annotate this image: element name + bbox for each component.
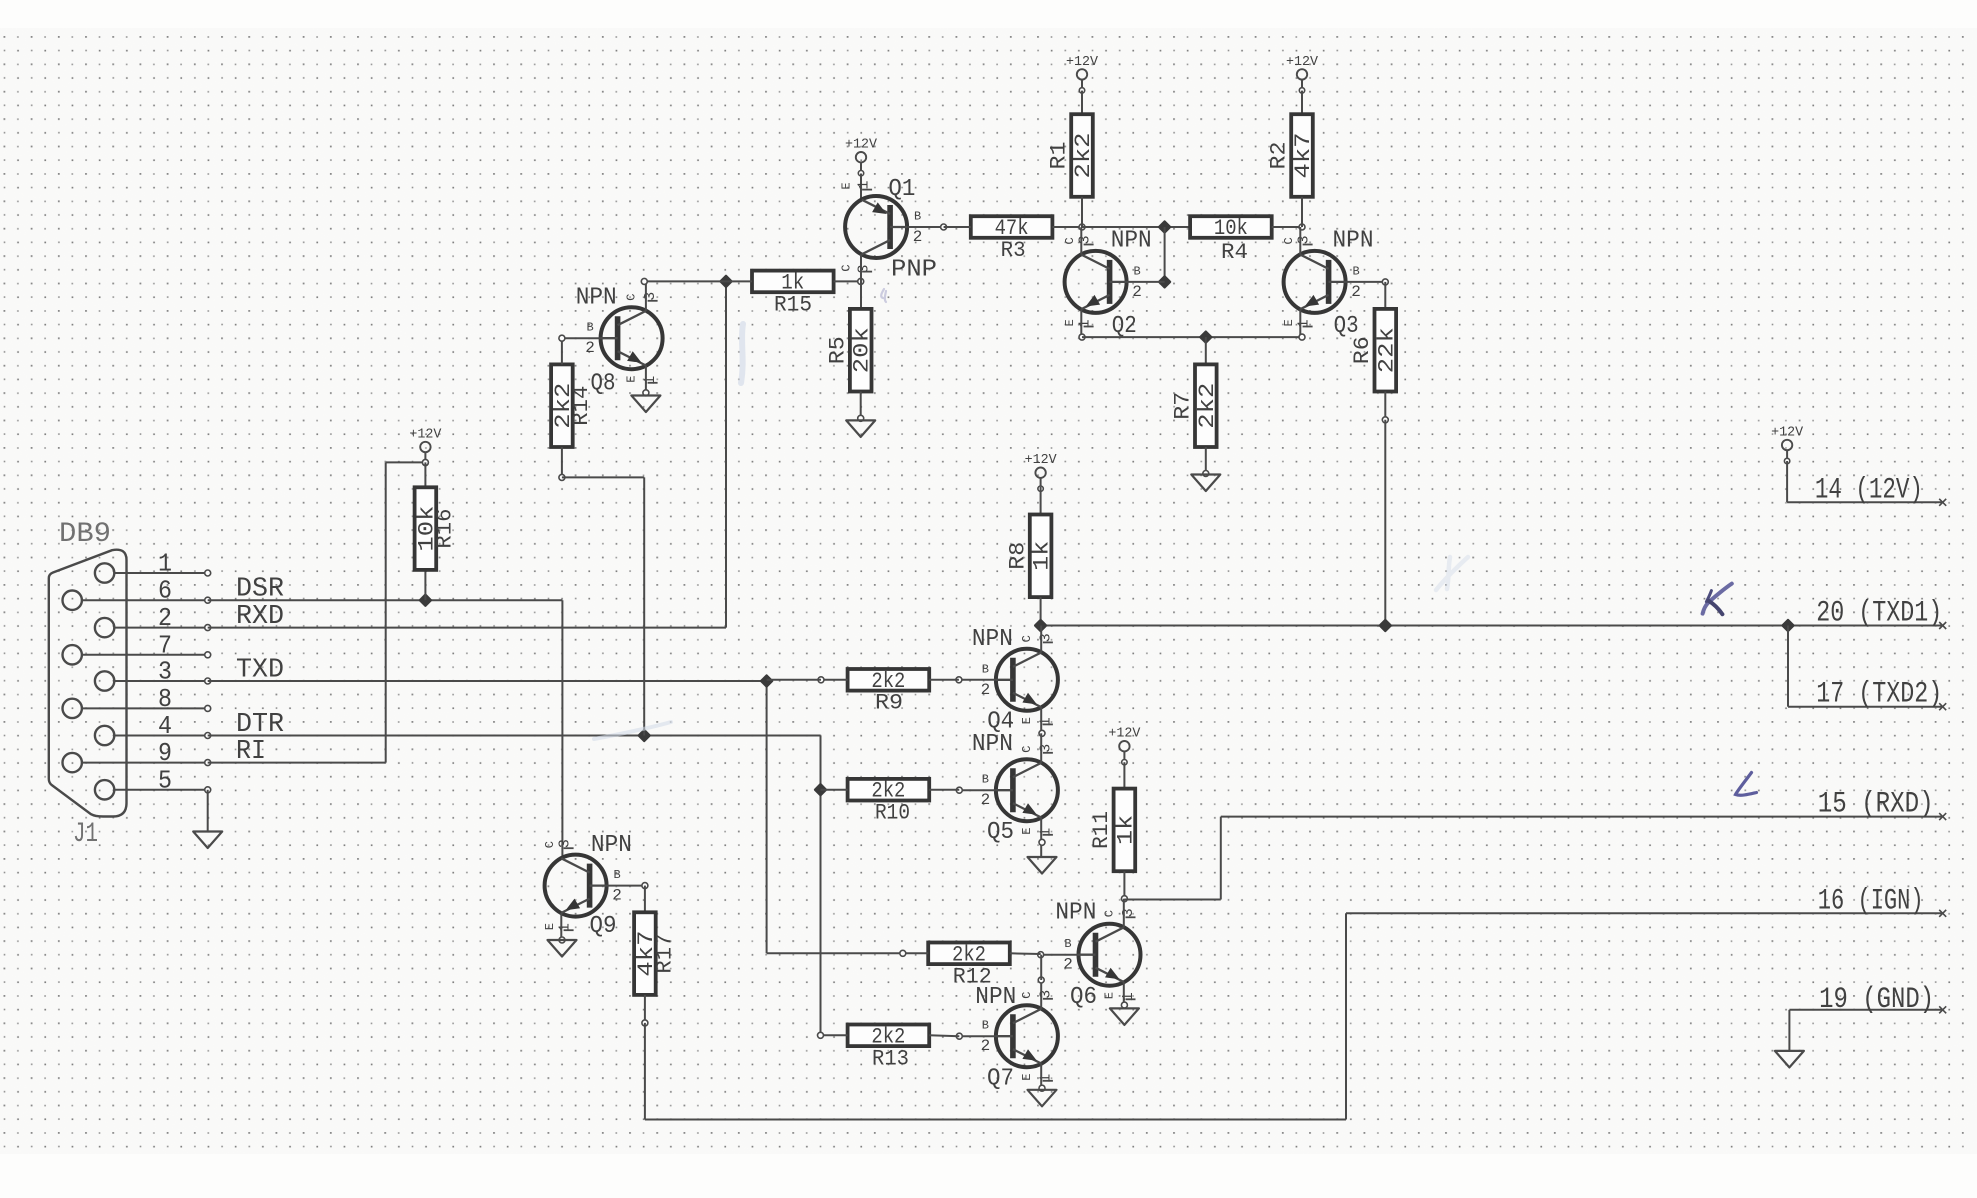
pin number 2 label [158, 603, 172, 633]
power +12V at R8 [1025, 453, 1058, 491]
label 20 (TXD1) [1816, 597, 1942, 631]
wire Q9 collector [560, 857, 562, 859]
svg-text:1k: 1k [1030, 541, 1055, 571]
connector J1 pin 2 circle [95, 618, 114, 637]
label Q2 NPN [1111, 228, 1152, 255]
resistor R3 [971, 216, 1053, 241]
label R15 name [774, 293, 812, 318]
label Q5 NPN [972, 731, 1013, 758]
svg-text:R10: R10 [875, 801, 910, 826]
svg-text:15 (RXD): 15 (RXD) [1818, 788, 1934, 822]
wire J1 pin 8 stub [82, 705, 211, 711]
pin mark RXD [1939, 813, 1946, 820]
junction node A / Q2 base [1158, 220, 1172, 234]
ground at Q9 [548, 940, 577, 957]
pin number 5 label [158, 765, 172, 795]
junction emitter bus / R7 [1199, 330, 1213, 344]
svg-text:PNP: PNP [891, 257, 937, 284]
wire Q9 emitter [559, 913, 565, 943]
wire emitter bus Q2-Q3 [1082, 336, 1302, 338]
wire R10 left [821, 789, 848, 791]
svg-text:3: 3 [642, 292, 659, 301]
label 15 (RXD) [1818, 788, 1934, 822]
svg-text:R2: R2 [1267, 142, 1292, 170]
svg-text:E: E [543, 923, 557, 930]
wire R1 bottom [1081, 197, 1083, 227]
ground at Q6 [1110, 1008, 1139, 1025]
wire J1 pin 6 stub [82, 597, 211, 603]
svg-text:2: 2 [585, 339, 595, 357]
resistor R6 [1374, 309, 1399, 392]
wire TXD net [208, 681, 903, 953]
label R11 name [1089, 811, 1114, 849]
pin mark TXD1 [1939, 622, 1946, 629]
svg-text:1: 1 [856, 180, 873, 189]
label R14 name [569, 386, 594, 426]
wire net TXD1 [1041, 625, 1943, 627]
svg-text:R8: R8 [1005, 542, 1030, 570]
svg-text:C: C [1282, 237, 1296, 244]
wire Q2 base wire [1127, 281, 1165, 283]
label 14 (12V) [1815, 473, 1923, 507]
pin mark 12V [1939, 499, 1946, 506]
label R1 name [1047, 142, 1072, 170]
resistor R5 [850, 309, 875, 392]
svg-text:NPN: NPN [576, 285, 617, 312]
svg-text:2: 2 [981, 1037, 991, 1055]
wire Q9 base wire [607, 883, 648, 889]
wire R9 left [767, 677, 848, 683]
svg-text:6: 6 [158, 576, 172, 606]
svg-text:Q1: Q1 [888, 176, 915, 203]
svg-text:3: 3 [158, 657, 172, 687]
svg-text:C: C [1020, 992, 1034, 999]
svg-text:Q6: Q6 [1070, 984, 1097, 1011]
transistor Q3 [1282, 235, 1361, 328]
svg-text:19 (GND): 19 (GND) [1819, 983, 1934, 1017]
wire R5 bottom [858, 392, 864, 422]
svg-text:J1: J1 [73, 819, 98, 850]
wire R2 top [1301, 91, 1303, 115]
svg-text:2: 2 [981, 681, 991, 699]
wire Q3 base wire [1346, 279, 1389, 285]
svg-text:3: 3 [1296, 235, 1313, 244]
wire Q2 emitter [1079, 309, 1085, 340]
wire Q3 emitter [1299, 309, 1305, 340]
svg-text:Q3: Q3 [1334, 313, 1359, 340]
wire R3 right [1052, 224, 1085, 230]
svg-text:2: 2 [1351, 283, 1361, 301]
label R8 name [1005, 542, 1030, 570]
svg-text:Q8: Q8 [591, 371, 616, 398]
svg-text:20k: 20k [850, 327, 875, 373]
svg-text:R5: R5 [825, 336, 850, 364]
wire J1 pin 2 stub [114, 625, 210, 631]
svg-text:2: 2 [913, 228, 923, 246]
connector J1 pin 6 circle [62, 591, 81, 610]
wire R3 left [944, 226, 971, 228]
faint blue streak right side [1436, 557, 1468, 590]
ground at Q7 [1028, 1090, 1057, 1107]
svg-text:Q9: Q9 [590, 913, 617, 940]
label 17 (TXD2) [1816, 678, 1942, 712]
wire Q1 emitter [860, 174, 862, 200]
wire Q3 collector [1299, 227, 1301, 255]
connector J1 pin 5 circle [95, 780, 114, 799]
label Q1 name [888, 176, 915, 203]
wire R12 right [1010, 952, 1041, 955]
label R12 name [953, 964, 992, 989]
svg-text:B: B [613, 868, 620, 882]
resistor R13 [848, 1024, 930, 1049]
wire R17 top [644, 886, 646, 913]
connector J1 (DB9) body [49, 519, 127, 850]
wire R14 bottom to DTR [559, 447, 644, 736]
node R16 top [422, 459, 428, 465]
svg-text:2: 2 [1063, 956, 1073, 974]
net label TXD [236, 656, 284, 686]
svg-text:3: 3 [1037, 990, 1054, 999]
wire R12 left [900, 950, 928, 956]
wire J1 pin 7 stub [82, 652, 211, 658]
wire J1 pin 1 stub [114, 570, 210, 576]
svg-text:C: C [1020, 746, 1034, 753]
wire Q4 collector [1040, 626, 1042, 653]
wire R13 left [818, 1032, 848, 1038]
wire R17 bottom to IGN [642, 913, 1943, 1119]
svg-text:9: 9 [158, 738, 172, 768]
svg-text:4: 4 [158, 711, 172, 741]
wire R16 pins [424, 462, 426, 600]
svg-text:4k7: 4k7 [1291, 133, 1316, 179]
ground at Q5 [1028, 857, 1057, 874]
resistor R8 [1030, 515, 1055, 598]
wire DTR net [208, 736, 821, 1036]
wire R2 bottom [1301, 197, 1303, 227]
svg-text:B: B [982, 1019, 989, 1033]
wire Q6 emitter [1121, 982, 1127, 1008]
svg-text:B: B [914, 210, 921, 224]
label R4 name [1221, 240, 1248, 265]
wire Q1 collector [860, 254, 862, 309]
wire Q5 base wire [956, 787, 996, 793]
svg-text:NPN: NPN [1055, 900, 1096, 927]
junction Q2 base [1158, 275, 1172, 289]
wire Q4 emitter [1039, 707, 1045, 736]
pin number 3 label [158, 657, 172, 687]
wire RI to +12V [208, 462, 426, 762]
svg-text:22k: 22k [1374, 327, 1399, 373]
ground at R5 [846, 420, 875, 437]
pin number 1 label [158, 549, 172, 579]
svg-text:B: B [586, 321, 593, 335]
wire Q7 collector [1038, 955, 1044, 1009]
junction TXD1/TXD2 [1781, 619, 1795, 633]
transistor Q5 [981, 744, 1058, 837]
junction DTR/R14 [637, 729, 651, 743]
svg-text:E: E [1063, 319, 1077, 326]
label Q5 name [987, 819, 1014, 846]
svg-text:R15: R15 [774, 293, 812, 318]
wire Q8 emitter [643, 366, 649, 396]
net label RXD [236, 602, 284, 632]
net label RI [236, 737, 266, 767]
svg-text:NPN: NPN [975, 984, 1016, 1011]
wire J1 pin 4 stub [114, 733, 210, 739]
svg-text:20 (TXD1): 20 (TXD1) [1816, 597, 1942, 631]
svg-text:R11: R11 [1089, 811, 1114, 849]
handwritten mark L [1736, 773, 1757, 796]
svg-text:R6: R6 [1350, 336, 1375, 364]
svg-text:+12V: +12V [1286, 55, 1319, 70]
wire R14 top [561, 342, 563, 365]
resistor R14 [551, 364, 576, 447]
transistor Q8 [585, 292, 662, 385]
svg-text:E: E [625, 376, 639, 383]
svg-text:+12V: +12V [1108, 727, 1141, 742]
wire R6 top [1384, 282, 1386, 309]
svg-text:B: B [982, 773, 989, 787]
label Q2 name [1112, 313, 1137, 340]
wire R13 right [929, 1034, 959, 1037]
label R17 name [653, 934, 678, 974]
resistor R9 [848, 669, 930, 694]
svg-text:B: B [982, 662, 989, 676]
wire Q7 base wire [956, 1033, 996, 1039]
svg-text:3: 3 [1037, 744, 1054, 753]
handwritten mark K [1703, 584, 1732, 615]
label Q6 NPN [1055, 900, 1096, 927]
label Q9 NPN [591, 832, 632, 859]
wire Q5 collector [1040, 733, 1042, 763]
label Q7 NPN [975, 984, 1016, 1011]
faint blue mark near Q1 [881, 289, 886, 302]
faint blue smudge near R15 [741, 324, 743, 383]
label R2 name [1267, 142, 1292, 170]
resistor R15 [752, 270, 834, 295]
svg-text:C: C [625, 294, 639, 301]
pin number 7 label [158, 630, 172, 660]
wire Q6 collector [1123, 899, 1125, 928]
svg-text:C: C [543, 841, 557, 848]
resistor R11 [1113, 789, 1138, 872]
svg-text:17 (TXD2): 17 (TXD2) [1816, 678, 1942, 712]
power +12V at R2 [1286, 55, 1319, 93]
wire R11 top [1123, 762, 1125, 788]
connector J1 pin 3 circle [95, 671, 114, 690]
power +12V at net 14 [1771, 426, 1804, 464]
svg-text:10k: 10k [1214, 216, 1248, 241]
wire net TXD2 [1788, 626, 1943, 707]
ground at J1 pin5 [193, 832, 222, 849]
label 16 (IGN) [1818, 884, 1924, 918]
svg-text:2: 2 [158, 603, 172, 633]
svg-text:+12V: +12V [409, 428, 442, 443]
transistor Q9 [543, 839, 622, 932]
svg-text:2: 2 [612, 887, 622, 905]
svg-text:Q2: Q2 [1112, 313, 1137, 340]
wire R6 bottom to TXD1 [1382, 392, 1388, 626]
wire pin5 to ground [207, 790, 209, 832]
svg-text:E: E [1020, 1074, 1034, 1081]
svg-text:DB9: DB9 [59, 519, 111, 550]
connector J1 pin 9 circle [62, 753, 81, 772]
svg-text:3: 3 [1077, 235, 1094, 244]
svg-text:2k2: 2k2 [1195, 383, 1220, 429]
svg-text:C: C [1103, 910, 1117, 917]
wire R15 left [648, 280, 752, 282]
svg-text:NPN: NPN [1111, 228, 1152, 255]
connector J1 pin 7 circle [62, 645, 81, 664]
svg-text:E: E [1020, 828, 1034, 835]
svg-text:E: E [1020, 717, 1034, 724]
svg-text:R3: R3 [1001, 238, 1026, 263]
transistor Q2 [1063, 235, 1142, 328]
net label DSR [236, 575, 284, 605]
label R6 name [1350, 336, 1375, 364]
wire R7 top [1205, 337, 1207, 364]
svg-text:C: C [840, 264, 854, 271]
resistor R12 [928, 942, 1010, 967]
label R16 name [432, 509, 457, 549]
wire Q6 base wire [1038, 952, 1079, 958]
wire Q5 emitter [1039, 818, 1045, 858]
wire R7 bottom [1203, 447, 1209, 477]
svg-text:R16: R16 [432, 509, 457, 549]
connector J1 pin 4 circle [95, 726, 114, 745]
svg-text:C: C [1020, 635, 1034, 642]
label R13 name [872, 1047, 909, 1072]
connector J1 pin 1 circle [95, 563, 114, 582]
wire Q2 collector [1080, 227, 1082, 255]
svg-text:R4: R4 [1221, 240, 1248, 265]
wire J1 pin 3 stub [114, 678, 210, 684]
wire R15 right [834, 278, 864, 284]
svg-text:NPN: NPN [591, 832, 632, 859]
resistor R2 [1291, 114, 1316, 197]
wire DSR net [208, 600, 563, 858]
label Q4 NPN [972, 626, 1013, 653]
resistor R1 [1071, 114, 1096, 197]
label Q3 NPN [1333, 228, 1374, 255]
svg-text:Q7: Q7 [987, 1066, 1014, 1093]
transistor Q1 [840, 180, 923, 273]
svg-text:3: 3 [557, 839, 574, 848]
faint blue streak near DTR [594, 722, 671, 739]
label Q4 name [987, 709, 1014, 736]
svg-text:R13: R13 [872, 1047, 909, 1072]
pin mark IGN [1939, 910, 1946, 917]
wire R8 bottom [1040, 597, 1042, 625]
svg-text:E: E [840, 182, 854, 189]
svg-text:NPN: NPN [1333, 228, 1374, 255]
ground at R7 [1191, 475, 1220, 492]
svg-text:R9: R9 [875, 691, 903, 716]
junction DTR/R10 [814, 783, 828, 797]
svg-text:E: E [1103, 992, 1117, 999]
label R3 name [1001, 238, 1026, 263]
transistor Q7 [981, 990, 1058, 1083]
svg-text:3: 3 [1120, 908, 1137, 917]
svg-text:E: E [1282, 319, 1296, 326]
svg-text:Q5: Q5 [987, 819, 1014, 846]
wire J1 pin 9 stub [82, 760, 211, 766]
label R9 name [875, 691, 903, 716]
svg-text:5: 5 [158, 765, 172, 795]
pin number 4 label [158, 711, 172, 741]
pin number 6 label [158, 576, 172, 606]
wire net 12V [1787, 461, 1943, 502]
svg-text:3: 3 [1037, 633, 1054, 642]
svg-text:2: 2 [1132, 283, 1142, 301]
svg-text:B: B [1133, 264, 1140, 278]
ground at Q8 [631, 396, 660, 413]
junction TXD1/R6 [1378, 619, 1392, 633]
resistor R16 [414, 487, 439, 570]
junction TXD/R9 [760, 674, 774, 688]
wire net GND out [1789, 1010, 1942, 1051]
pin mark GND [1939, 1006, 1946, 1013]
svg-text:NPN: NPN [972, 731, 1013, 758]
label Q1 PNP [891, 257, 937, 284]
svg-text:R17: R17 [653, 934, 678, 974]
resistor R7 [1195, 364, 1220, 447]
wire node A to R4 [1082, 226, 1190, 228]
wire R8 top [1040, 487, 1042, 515]
wire Q4 base wire [956, 677, 996, 683]
svg-text:+12V: +12V [1771, 426, 1804, 441]
svg-text:2k2: 2k2 [1071, 133, 1096, 179]
transistor Q4 [981, 633, 1058, 726]
wire R11 bottom [1121, 871, 1127, 902]
junction DSR/R16 [419, 593, 433, 607]
resistor R10 [848, 779, 930, 804]
label Q8 NPN [576, 285, 617, 312]
power +12V at R1 [1066, 55, 1099, 93]
svg-text:R14: R14 [569, 386, 594, 426]
svg-text:+12V: +12V [1025, 453, 1058, 468]
power +12V at Q1 [845, 138, 878, 176]
wire R10 right [929, 789, 959, 791]
power +12V at R16 [409, 428, 442, 466]
pin number 9 label [158, 738, 172, 768]
pin number 8 label [158, 684, 172, 714]
wire Q7 emitter [1039, 1064, 1045, 1092]
connector J1 pin 8 circle [62, 699, 81, 718]
label 19 (GND) [1819, 983, 1934, 1017]
label Q9 name [590, 913, 617, 940]
svg-text:14 (12V): 14 (12V) [1815, 473, 1923, 507]
wire J1 pin 5 stub [114, 787, 210, 793]
svg-text:NPN: NPN [972, 626, 1013, 653]
svg-text:B: B [1064, 937, 1071, 951]
svg-text:2: 2 [981, 791, 991, 809]
svg-text:1k: 1k [1113, 815, 1138, 845]
label R7 name [1171, 392, 1196, 420]
wire net RXD out [1124, 817, 1942, 900]
pin mark TXD2 [1939, 703, 1946, 710]
svg-text:B: B [1352, 264, 1359, 278]
label Q3 name [1334, 313, 1359, 340]
power +12V at R11 [1108, 727, 1141, 765]
svg-text:+12V: +12V [845, 138, 878, 153]
wire RXD net [208, 281, 726, 627]
wire Q2 base link [1164, 227, 1166, 282]
resistor R4 [1190, 216, 1272, 241]
svg-text:+12V: +12V [1066, 55, 1099, 70]
wire R1 top [1081, 91, 1083, 115]
net label DTR [236, 710, 284, 740]
